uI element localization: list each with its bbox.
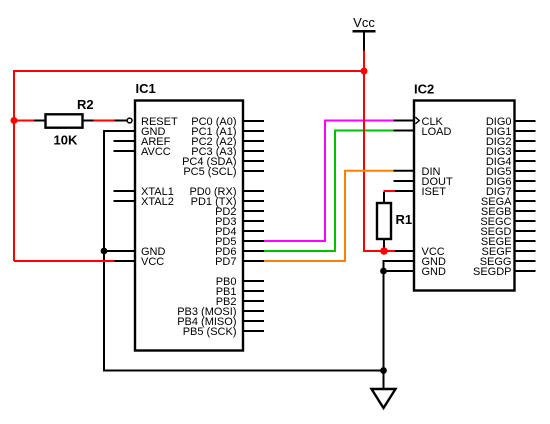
- wire GND net: IC2 GND pin 1: [384, 260, 415, 262]
- pin IC1 PB1 stub: [243, 290, 264, 292]
- junction Vcc net at R2 branch: [11, 117, 18, 124]
- pin names IC1 left: [141, 116, 178, 268]
- pin names IC2 right: [473, 116, 512, 278]
- pin IC2 SEGB stub: [514, 210, 536, 212]
- pin IC2 DIG0 stub: [514, 120, 536, 122]
- pin IC1 PC0 stub: [243, 120, 264, 122]
- wire GND net: bottom horizontal run: [104, 370, 384, 372]
- pin IC2 CLK stub: [394, 120, 415, 122]
- pin IC1 PC4 stub: [243, 160, 264, 162]
- wire Vcc net: branch to R2 left lead: [13, 120, 34, 122]
- svg-text:GND: GND: [422, 266, 447, 278]
- pin IC1 PD2 stub: [243, 210, 264, 212]
- pin IC1 PC2 stub: [243, 140, 264, 142]
- wire net RESET: R2 right lead to RESET pin: [93, 120, 115, 122]
- pin IC1 PB2 stub: [243, 300, 264, 302]
- resistor R1: [377, 203, 391, 239]
- pin IC1 XTAL2 stub: [114, 200, 136, 202]
- pin IC1 PC5 stub: [243, 170, 264, 172]
- wire GND net: right vertical down to ground: [383, 260, 385, 390]
- pin IC2 DIG5 stub: [514, 170, 536, 172]
- pin IC1 PD1 stub: [243, 200, 264, 202]
- clock input wedge on CLK pin: [415, 117, 419, 124]
- pin IC2 SEGDP stub: [514, 270, 536, 272]
- svg-text:PC5 (SCL): PC5 (SCL): [183, 166, 236, 178]
- svg-text:SEGDP: SEGDP: [473, 266, 512, 278]
- wire Vcc net: bottom-left horizontal to IC1 VCC: [14, 260, 115, 262]
- junction Vcc net at R1 bottom / IC2 VCC: [380, 247, 388, 255]
- pin IC2 SEGE stub: [514, 240, 536, 242]
- wire GND net: IC1 lower GND pin: [104, 250, 135, 252]
- wire GND net: left vertical run: [103, 130, 105, 372]
- pin IC1 PB0 stub: [243, 280, 264, 282]
- wire GND net: IC2 GND pin 2: [384, 270, 415, 272]
- pin IC2 DIG2 stub: [514, 140, 536, 142]
- wire IC1 VCC pin stub: [115, 260, 136, 262]
- pin IC2 VCC stub: [395, 250, 414, 252]
- wire RESET pin stub with inverting bubble: [115, 118, 133, 123]
- pin IC2 LOAD stub: [394, 130, 415, 132]
- pin IC1 PB3 stub: [243, 310, 264, 312]
- junction Vcc net at top tee: [361, 68, 368, 75]
- pin IC1 PD0 stub: [243, 190, 264, 192]
- pin IC2 DOUT stub: [394, 180, 415, 182]
- pin IC2 DIN stub: [394, 170, 415, 172]
- junction GND net at IC2 GND pin 2: [380, 268, 387, 275]
- resistor R1 leads: [383, 192, 385, 251]
- svg-text:R1: R1: [396, 212, 413, 227]
- svg-text:LOAD: LOAD: [422, 126, 452, 138]
- svg-text:R2: R2: [77, 97, 94, 112]
- pin IC1 AREF stub: [114, 140, 136, 142]
- pin IC1 XTAL1 stub: [114, 190, 136, 192]
- pin IC2 DIG4 stub: [514, 160, 536, 162]
- pin IC1 PC3 stub: [243, 150, 264, 152]
- pin IC2 ISET stub: [395, 190, 414, 192]
- pin IC2 DIG7 stub: [514, 190, 536, 192]
- svg-text:ISET: ISET: [422, 186, 447, 198]
- resistor R2: [34, 114, 94, 127]
- wire Vcc net: left vertical run: [13, 70, 15, 261]
- pin IC2 SEGF stub: [514, 250, 536, 252]
- IC IC2 (display driver) body: [414, 101, 515, 291]
- wire GND net: IC1 upper GND pin: [104, 130, 135, 132]
- pin IC1 PD6 stub: [243, 250, 264, 252]
- wire Vcc net: ISET branch stub: [384, 190, 396, 192]
- pin IC2 SEGD stub: [514, 230, 536, 232]
- junction GND net at bottom run: [380, 367, 387, 374]
- wire Vcc net: junction to IC2 VCC pin: [384, 250, 395, 252]
- junction GND net at IC1 lower GND: [101, 248, 108, 255]
- pin names IC1 right: [177, 116, 236, 338]
- wire net DATA (orange) PD7 to DIN: [263, 171, 394, 261]
- wire Vcc net: vertical drop from Vcc symbol down to IC2 VCC junction: [364, 51, 384, 252]
- pin IC1 AVCC stub: [114, 150, 136, 152]
- pin IC2 SEGC stub: [514, 220, 536, 222]
- pin IC1 PD4 stub: [243, 230, 264, 232]
- wire Vcc net: top horizontal run: [14, 70, 365, 72]
- pin IC1 PB4 stub: [243, 320, 264, 322]
- pin IC1 PB5 stub: [243, 330, 264, 332]
- svg-text:10K: 10K: [54, 133, 78, 148]
- svg-text:Vcc: Vcc: [353, 15, 375, 30]
- pin IC2 DIG3 stub: [514, 150, 536, 152]
- pin IC2 DIG6 stub: [514, 180, 536, 182]
- pin IC2 SEGA stub: [514, 200, 536, 202]
- svg-text:IC1: IC1: [136, 81, 156, 96]
- svg-text:PB5 (SCK): PB5 (SCK): [183, 326, 237, 338]
- power symbol Vcc: [353, 15, 376, 51]
- wire net LOAD (green) PD6 to LOAD: [263, 131, 394, 252]
- pin IC2 DIG1 stub: [514, 130, 536, 132]
- pin IC1 PD3 stub: [243, 220, 264, 222]
- IC IC1 (microcontroller) body: [135, 101, 243, 351]
- pin IC1 PC1 stub: [243, 130, 264, 132]
- pin IC1 PD5 stub: [243, 240, 264, 242]
- pin names IC2 left: [422, 116, 453, 278]
- wire net SCK (magenta) PD5 to CLK: [263, 121, 394, 242]
- svg-text:PD7: PD7: [215, 256, 236, 268]
- svg-text:VCC: VCC: [141, 256, 164, 268]
- svg-text:IC2: IC2: [414, 82, 434, 97]
- pin IC2 SEGG stub: [514, 260, 536, 262]
- svg-text:AVCC: AVCC: [141, 146, 171, 158]
- ground symbol: [372, 389, 396, 408]
- svg-text:XTAL2: XTAL2: [141, 196, 174, 208]
- pin IC1 PD7 stub: [243, 260, 264, 262]
